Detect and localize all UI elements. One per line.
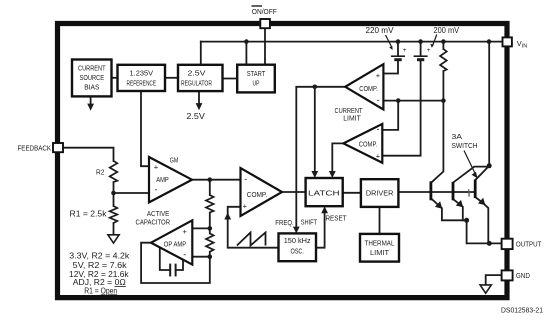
svg-text:OSC.: OSC. (290, 247, 304, 256)
svg-text:-: - (377, 124, 380, 134)
svg-text:SOURCE: SOURCE (80, 73, 105, 82)
svg-text:SHIFT: SHIFT (301, 217, 318, 226)
svg-text:3.3V, R2 = 4.2k: 3.3V, R2 = 4.2k (69, 252, 130, 261)
svg-text:GND: GND (516, 271, 530, 280)
svg-text:R1 = 2.5k: R1 = 2.5k (70, 209, 107, 218)
svg-text:DS012583-21: DS012583-21 (501, 307, 543, 314)
svg-text:REGULATOR: REGULATOR (181, 78, 212, 87)
svg-text:UP: UP (253, 78, 260, 87)
svg-text:OP AMP: OP AMP (164, 239, 187, 248)
svg-text:-: - (377, 95, 380, 105)
svg-text:COMP.: COMP. (359, 139, 378, 148)
svg-text:SWITCH: SWITCH (452, 141, 478, 150)
svg-text:REFERENCE: REFERENCE (127, 78, 157, 87)
svg-text:+: + (376, 151, 381, 160)
svg-text:GM: GM (170, 155, 179, 164)
svg-text:2.5V: 2.5V (186, 112, 205, 121)
svg-text:+: + (376, 71, 381, 80)
svg-text:OUTPUT: OUTPUT (516, 239, 542, 248)
svg-text:+: + (154, 163, 159, 172)
svg-text:-: - (244, 174, 247, 184)
svg-text:LATCH: LATCH (308, 188, 340, 197)
svg-text:-: - (183, 250, 186, 260)
svg-text:150 kHz: 150 kHz (284, 236, 311, 245)
svg-text:CURRENT: CURRENT (78, 63, 106, 72)
svg-text:+: + (403, 47, 407, 54)
svg-text:LIMIT: LIMIT (370, 248, 389, 257)
svg-text:ON/OFF: ON/OFF (252, 7, 277, 16)
svg-text:BIAS: BIAS (84, 82, 99, 91)
svg-text:THERMAL: THERMAL (365, 238, 395, 247)
svg-text:RESET: RESET (326, 214, 347, 223)
svg-text:AMP: AMP (156, 175, 169, 184)
svg-text:FEEDBACK: FEEDBACK (18, 143, 52, 152)
svg-text:220 mV: 220 mV (366, 26, 395, 35)
svg-text:2.5V: 2.5V (188, 69, 206, 78)
svg-text:-: - (155, 185, 158, 195)
svg-text:DRIVER: DRIVER (366, 188, 394, 197)
svg-text:+: + (427, 47, 431, 54)
svg-text:START: START (247, 69, 266, 78)
svg-text:+: + (183, 227, 188, 236)
svg-text:R2: R2 (96, 168, 105, 177)
svg-text:FREQ.: FREQ. (275, 218, 294, 227)
svg-text:LIMIT: LIMIT (343, 114, 361, 123)
svg-text:COMP.: COMP. (359, 84, 378, 93)
svg-text:R1 = Open: R1 = Open (84, 286, 117, 295)
svg-text:1.235V: 1.235V (130, 69, 154, 78)
svg-text:200 mV: 200 mV (434, 26, 460, 35)
svg-text:CAPACITOR: CAPACITOR (136, 217, 171, 226)
svg-text:3A: 3A (452, 132, 463, 141)
svg-text:5V, R2 = 7.6k: 5V, R2 = 7.6k (73, 261, 128, 270)
svg-text:COMP.: COMP. (247, 190, 268, 199)
svg-text:+: + (243, 201, 248, 210)
